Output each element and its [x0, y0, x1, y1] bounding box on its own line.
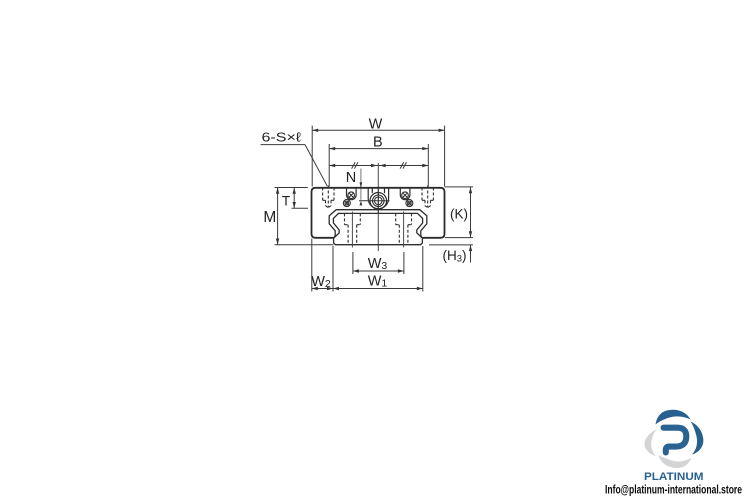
dimension M	[275, 188, 334, 245]
dimension half-B line with equal marks	[329, 162, 428, 168]
letter P	[664, 428, 687, 453]
dimension B line	[329, 144, 428, 187]
svg-text:(H3): (H3)	[442, 248, 466, 265]
rail profile	[333, 213, 422, 244]
svg-text:T: T	[282, 193, 290, 208]
svg-text:M: M	[263, 209, 276, 226]
svg-text:B: B	[373, 135, 383, 151]
dimension K	[445, 187, 473, 238]
platinum logo	[605, 410, 742, 497]
petal top (blue)	[656, 410, 691, 425]
block outline	[312, 188, 445, 238]
svg-text:W: W	[369, 116, 383, 132]
logo white disc	[654, 419, 694, 459]
svg-text:Info@platinum-international.st: Info@platinum-international.store	[605, 485, 742, 497]
dimension T	[292, 188, 309, 209]
end-cap screw upper-right	[400, 188, 410, 200]
rail bolt hole left centre line	[351, 212, 353, 248]
dimension W3	[353, 252, 404, 274]
tapped hole right (dashed)	[422, 186, 433, 208]
end-cap screw lower-right	[406, 200, 413, 207]
tapped hole left (dashed)	[323, 186, 334, 208]
rail bolt hole right centre line	[403, 212, 405, 248]
svg-text:N: N	[346, 170, 356, 186]
dimension W1	[312, 239, 423, 292]
svg-text:(K): (K)	[450, 207, 468, 222]
centre line	[377, 163, 379, 251]
petal bottom (grey)	[659, 456, 692, 469]
dimension W line	[312, 126, 444, 187]
rail bolt hole right (dashed)	[396, 213, 412, 244]
petal left (grey)	[645, 429, 657, 456]
grease nipple recess	[368, 188, 388, 209]
petal right (blue)	[691, 422, 704, 455]
dimension N arrow	[360, 169, 362, 200]
dimension H3	[429, 245, 473, 263]
dimension W2	[312, 288, 333, 290]
grease nipple	[370, 193, 387, 210]
end-cap screw upper-left	[347, 188, 357, 200]
end-cap screw lower-left	[343, 200, 350, 207]
svg-text:6-S×ℓ: 6-S×ℓ	[262, 130, 302, 145]
svg-text:PLATINUM: PLATINUM	[644, 471, 704, 483]
rail bolt hole left (dashed)	[345, 213, 361, 244]
block recess contour	[329, 210, 427, 238]
